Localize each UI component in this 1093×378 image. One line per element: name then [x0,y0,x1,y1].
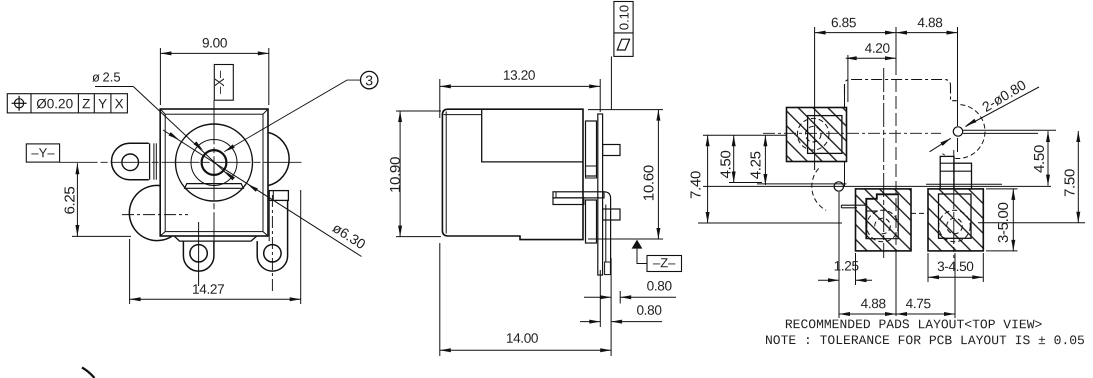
dimension 4.25 [764,135,766,185]
side view body outline [442,109,583,239]
svg-text:3-5.00: 3-5.00 [995,202,1012,243]
pad bottom-right inner window [939,194,972,238]
svg-text:4.20: 4.20 [865,41,891,56]
dimension 10.90 extension lines [396,110,441,112]
bottom tab right [257,200,287,271]
dimension 6.85 [815,32,896,34]
bottom-left lobe centerline [122,214,188,216]
dimension 4.20 extension line [847,55,849,102]
svg-text:4.50: 4.50 [717,151,734,179]
dimension 3-5.00 extension lines [986,188,1018,190]
svg-text:Z: Z [82,96,90,111]
center terminal lower bar [553,198,584,205]
left ear hole [122,154,139,171]
dimension 10.90 [399,111,401,237]
side body top seam [444,114,482,116]
left mounting ear [112,143,149,179]
left collar lines [149,143,151,179]
svg-text:1.25: 1.25 [834,258,859,273]
dimension 9.00 extension lines [159,48,161,105]
datum Z box [647,256,682,272]
dimension 0.80 lower [580,321,600,323]
pin rects above right pad [940,156,954,188]
hidden edge between pads [911,212,928,214]
step lines left of middle pad [841,204,866,206]
right plate lower [586,200,597,243]
bottom tab right hole [264,245,281,262]
dimension 3-4.50 extension lines [927,253,929,282]
dimension 4.75 [896,313,955,315]
pad bottom-middle hatched [856,189,912,251]
double extension right of hole [963,129,1056,131]
right pad centerline [953,150,955,258]
svg-text:4.25: 4.25 [748,151,765,179]
right plate upper [586,121,597,176]
position symbol [15,99,24,108]
svg-text:NOTE : TOLERANCE FOR PCB LAYOU: NOTE : TOLERANCE FOR PCB LAYOUT IS ± 0.0… [765,333,1085,348]
pad bottom-middle inner window [866,194,898,238]
svg-text:0.10: 0.10 [616,5,631,30]
svg-text:10.90: 10.90 [387,157,404,193]
outer barrel circle [176,124,253,201]
left tab centerline [198,222,200,286]
svg-text:14.27: 14.27 [192,282,224,297]
svg-text:3-4.50: 3-4.50 [937,259,974,274]
rear thin plate [598,114,603,275]
bottom-left lobe arc [129,185,172,240]
svg-text:X: X [115,96,124,111]
left hole small circle [834,182,843,191]
bottom flange [175,236,257,241]
horizontal centerline through pads [763,132,941,134]
dimension 7.50 extension line [978,222,1085,224]
top view body left edge [844,95,846,108]
balloon 3 leader [224,80,360,152]
vertical centerline [213,100,215,247]
svg-text:–Y–: –Y– [31,145,55,160]
side pin lower [603,209,620,220]
pad top-left dashed circles [797,118,829,150]
stray mark bottom left [82,368,95,378]
dimension 4.88 bottom [839,313,896,315]
right lobe arc [268,132,289,185]
object extension verticals [599,270,601,327]
dimension 9.00 [160,52,268,54]
right tab centerline [271,195,273,291]
datum Z triangle [632,240,643,249]
dimension 4.20 [846,57,896,59]
svg-text:0.80: 0.80 [636,303,662,318]
dimension 6.25 [76,163,78,236]
svg-text:3: 3 [365,72,373,88]
svg-text:10.60: 10.60 [641,165,658,201]
svg-text:13.20: 13.20 [503,68,536,83]
2-dia0.80 callout [930,138,951,152]
dimension 4.50 left [733,135,735,182]
svg-text:ø 2.5: ø 2.5 [92,70,121,85]
pad bottom-right hatched [928,189,983,251]
dimension 13.20 [440,85,600,87]
side body notch [482,109,583,162]
pad bottom-middle dashed circles [867,210,899,242]
svg-text:Y: Y [98,96,107,111]
svg-text:6.85: 6.85 [831,15,856,30]
flatness frame [614,2,633,57]
front view corner bevels [160,109,268,236]
svg-text:9.00: 9.00 [202,35,228,50]
datum X box [214,65,233,101]
dimension 4.50 right [1047,131,1049,186]
svg-text:4.75: 4.75 [906,296,931,311]
svg-text:RECOMMENDED PADS LAYOUT<TOP VI: RECOMMENDED PADS LAYOUT<TOP VIEW> [785,317,1043,332]
right hole small circle [953,127,962,136]
svg-text:4.50: 4.50 [1031,145,1048,173]
horizontal centerline [60,161,302,163]
front view body square outer [160,109,268,236]
dimension 6.85 and 4.88 extension lines [814,27,816,170]
dimension 14.00 extension line [439,243,441,356]
balloon 3 [361,71,378,88]
diameter 6.30 callout [163,130,362,257]
pad bottom-right dashed circles [939,210,971,242]
pad top-left inner window [808,116,842,154]
center terminal upper bar [553,192,604,198]
svg-text:0.80: 0.80 [647,278,673,293]
dimension 3-5.00 [1012,189,1014,251]
svg-text:–Z–: –Z– [653,255,676,270]
flatness leader [610,56,612,110]
dimension 14.27 extension lines [129,239,131,304]
top view body outline dash-dot [845,80,957,101]
dimension 14.27 [130,298,301,300]
svg-text:4.88: 4.88 [917,15,942,30]
svg-text:–X–: –X– [212,70,227,94]
flatness symbol [617,39,629,50]
svg-text:4.88: 4.88 [861,296,886,311]
dimension 3-4.50 [928,276,983,278]
center pin circle small [202,150,227,175]
side body left seam [445,112,447,234]
dimension 4.88 top [896,32,958,34]
dashed circle around right hole [943,105,986,159]
main bottom edge line [703,185,1051,187]
dimension 0.80 upper [584,296,611,298]
dimension 14.00 [440,349,611,351]
bottom tab left hole [190,245,207,262]
secondary bottom edge lines [757,183,847,185]
dimension 10.60 [657,110,659,239]
datum Y box [26,144,59,162]
svg-text:14.00: 14.00 [506,331,539,346]
dashed circle around left hole [812,168,826,210]
dimension 1.25 [818,279,839,281]
right plate small step [586,166,597,178]
front view body square inner edge [165,114,263,231]
svg-text:6.25: 6.25 [62,187,79,215]
feature control frame [7,94,127,113]
dimension 1.25 extension lines [838,192,840,318]
left extension lines [703,134,787,136]
middle pad centerline [883,68,885,258]
svg-text:Ø0.20: Ø0.20 [36,96,73,111]
right side block [269,191,288,201]
dimension 7.50 [1077,131,1079,223]
datum Z leader [637,249,647,264]
side pin upper [603,145,620,156]
dimension 7.40 [707,135,709,223]
svg-text:7.40: 7.40 [687,171,704,199]
bottom tab left [183,241,214,271]
dimension 13.20 extension lines [439,79,441,118]
middle circle [191,140,237,186]
dimension 10.60 extension lines [588,109,663,111]
svg-text:7.50: 7.50 [1062,169,1079,197]
pad top-left hatched [787,108,847,162]
terminal bend lug [604,192,611,262]
key bar [185,184,244,189]
